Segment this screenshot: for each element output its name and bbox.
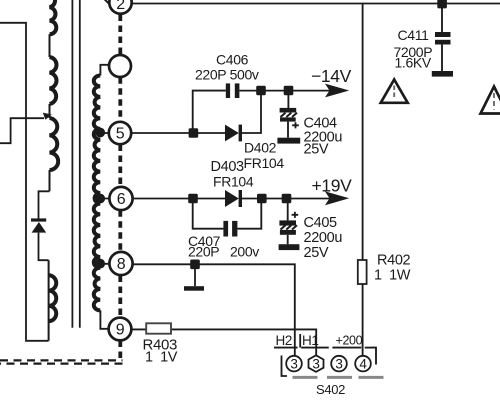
- svg-text:2200u: 2200u: [304, 230, 343, 246]
- svg-text:−14V: −14V: [311, 66, 352, 86]
- svg-text:2: 2: [116, 0, 125, 13]
- svg-text:FR104: FR104: [244, 155, 285, 171]
- svg-text:6: 6: [117, 191, 126, 208]
- svg-text:1 1W: 1 1W: [374, 268, 411, 284]
- svg-text:9: 9: [116, 322, 125, 339]
- svg-text:5: 5: [116, 126, 125, 143]
- svg-text:S402: S402: [316, 382, 345, 397]
- svg-text:C405: C405: [304, 215, 338, 231]
- svg-text:8: 8: [117, 256, 126, 273]
- svg-text:1.6KV: 1.6KV: [395, 55, 432, 71]
- svg-text:1 1V: 1 1V: [145, 350, 178, 366]
- svg-text:C406: C406: [216, 52, 249, 68]
- svg-text:25V: 25V: [304, 245, 329, 261]
- svg-text:220P 500v: 220P 500v: [195, 67, 259, 83]
- svg-text:H2: H2: [276, 333, 293, 348]
- svg-text:+200: +200: [336, 334, 363, 348]
- svg-text:4: 4: [359, 357, 367, 372]
- svg-text:220P: 220P: [188, 244, 219, 260]
- svg-text:25V: 25V: [304, 142, 329, 158]
- svg-text:H1: H1: [302, 333, 319, 348]
- svg-text:3: 3: [335, 357, 342, 372]
- svg-text:R402: R402: [377, 253, 411, 269]
- svg-text:FR104: FR104: [213, 174, 254, 190]
- svg-text:+19V: +19V: [312, 176, 353, 196]
- svg-text:C411: C411: [398, 27, 430, 43]
- svg-text:3: 3: [290, 357, 297, 372]
- svg-text:200v: 200v: [230, 244, 259, 260]
- svg-text:3: 3: [312, 357, 319, 372]
- svg-text:D402: D402: [244, 140, 277, 156]
